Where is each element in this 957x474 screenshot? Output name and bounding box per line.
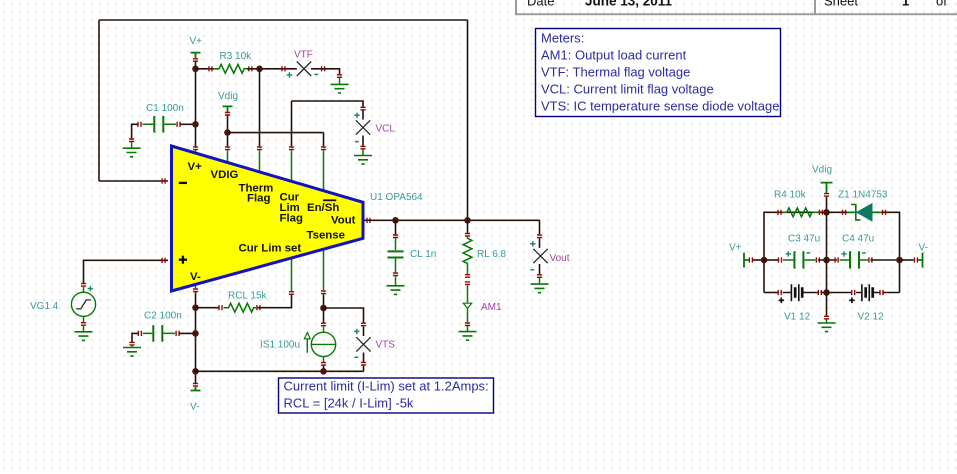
svg-text:VTF: VTF	[294, 50, 313, 61]
svg-text:VG1 4: VG1 4	[30, 301, 59, 312]
svg-text:RCL = [24k / I-Lim] -5k: RCL = [24k / I-Lim] -5k	[284, 396, 414, 411]
svg-text:C4 47u: C4 47u	[842, 234, 874, 245]
pin mark opamp VDIG pin	[225, 147, 230, 150]
svg-text:Vout: Vout	[550, 253, 570, 264]
junction C2 node	[192, 330, 199, 337]
node V+ rail top	[190, 36, 203, 61]
wire feedback top	[99, 19, 468, 21]
svg-text:V1 12: V1 12	[784, 312, 811, 323]
ground C1	[123, 142, 141, 157]
pin mark VG1 top	[81, 284, 86, 287]
wire center rail to ground	[826, 293, 828, 316]
ground right section	[818, 320, 836, 332]
svg-text:IS1 100u: IS1 100u	[260, 340, 300, 351]
pin mark C2 ground	[129, 342, 134, 345]
pin mark inverting input	[162, 178, 165, 183]
wire right rail to V- symbol	[900, 259, 914, 261]
wire Vdig to EnSh	[228, 132, 324, 134]
capacitor C2 100n	[138, 311, 181, 342]
wire EnSh column	[323, 133, 325, 147]
ground VG1	[75, 326, 93, 341]
pin mark opamp V+ pin	[193, 147, 198, 150]
pin mark noninverting input	[162, 258, 165, 263]
wire battery row left	[764, 292, 778, 294]
pin stub opamp V- pin	[195, 285, 197, 289]
svg-text:June 13, 2011: June 13, 2011	[585, 0, 673, 9]
junction feedback node	[464, 217, 471, 224]
pin stub opamp VDIG pin	[227, 150, 229, 163]
wire RCL to cur lim set pin	[258, 295, 292, 308]
wire Vout meter drop	[539, 220, 541, 235]
junction C1 node	[192, 121, 199, 128]
wire feedback right	[467, 20, 469, 220]
node Vdig rail	[218, 91, 238, 115]
pin mark V- rail	[193, 384, 198, 387]
svg-text:VCL: VCL	[376, 124, 396, 135]
wire thermal flag column	[259, 69, 261, 147]
wire C3 to center rail	[818, 259, 837, 261]
svg-text:VTF: Thermal flag voltage: VTF: Thermal flag voltage	[541, 65, 690, 80]
svg-text:Tsense: Tsense	[307, 230, 345, 242]
svg-text:Flag: Flag	[280, 213, 303, 225]
op-amp label Cur Lim Flag	[280, 192, 303, 225]
wire C2 left corner	[132, 333, 139, 342]
wire C4 to right rail	[871, 259, 900, 261]
ground Vout meter	[531, 278, 549, 293]
title block divider vertical left	[515, 0, 517, 14]
svg-text:V-: V-	[919, 243, 928, 254]
svg-text:En/Sh: En/Sh	[307, 202, 339, 214]
wire C2 to V- column	[179, 332, 196, 334]
wire left rail to C3	[764, 259, 778, 261]
voltmeter Vout	[530, 235, 570, 277]
svg-text:R3 10k: R3 10k	[220, 51, 253, 62]
svg-text:CL 1n: CL 1n	[410, 249, 436, 260]
svg-text:V+: V+	[729, 243, 742, 254]
svg-text:VDIG: VDIG	[211, 169, 239, 181]
wire CL column	[395, 220, 397, 234]
pin mark C1 ground	[129, 139, 134, 142]
junction center rail battery node	[823, 289, 830, 296]
junction RCL node	[192, 304, 199, 311]
pin stub opamp EnSh pin	[323, 150, 325, 191]
junction Vdig node	[224, 129, 231, 136]
pin mark opamp Vout pin	[367, 218, 370, 223]
ground C2	[123, 346, 141, 357]
pin mark VG1 bottom	[81, 323, 86, 326]
svg-text:Sheet: Sheet	[824, 0, 858, 9]
ground VCL	[354, 150, 372, 165]
svg-text:Current limit (I-Lim) set at 1: Current limit (I-Lim) set at 1.2Amps:	[284, 379, 489, 394]
svg-text:V-: V-	[190, 402, 199, 413]
op-amp inverting input minus sign	[179, 182, 187, 184]
svg-text:V+: V+	[190, 36, 203, 47]
svg-text:AM1: AM1	[481, 302, 502, 313]
node V- rail right section	[914, 243, 928, 268]
capacitor CL 1n	[388, 235, 437, 276]
op-amp label Therm Flag	[239, 183, 274, 205]
svg-text:U1 OPA564: U1 OPA564	[370, 192, 423, 203]
pin mark opamp Cur Lim Flag pin	[289, 147, 294, 150]
current source IS1 100u	[260, 326, 336, 362]
wire V- column	[195, 292, 197, 383]
title block divider vertical right	[814, 0, 816, 14]
pin mark right ground	[824, 316, 829, 319]
junction CL node	[392, 217, 399, 224]
svg-text:V+: V+	[188, 161, 203, 173]
junction right rail V- node	[896, 257, 903, 264]
capacitor C4 47u	[835, 234, 874, 269]
pin mark opamp Tsense pin	[321, 291, 326, 294]
wire IS1 to bottom rail	[323, 366, 325, 372]
svg-text:Meters:: Meters:	[541, 31, 584, 46]
current limit note box	[279, 378, 494, 413]
wire Vdig rail to zener node	[826, 197, 828, 213]
wire center rail	[826, 212, 828, 292]
pin mark IS1 bottom	[321, 363, 326, 366]
pin stub opamp Cur Lim set pin	[291, 258, 293, 291]
junction IS1 bottom node	[320, 368, 327, 375]
svg-text:VTS: VTS	[376, 340, 396, 351]
wire zener row right corner	[827, 212, 900, 292]
op-amp U1 OPA564 body	[172, 146, 364, 291]
junction V+ node	[192, 66, 199, 73]
resistor R4 10k	[774, 190, 822, 217]
ground AM1	[459, 326, 477, 340]
source VG1 4	[30, 286, 96, 322]
svg-text:Vdig: Vdig	[218, 91, 238, 102]
node Vdig rail right	[812, 165, 833, 197]
svg-text:VTS: IC temperature sense diod: VTS: IC temperature sense diode voltage	[541, 99, 779, 114]
capacitor C3 47u	[779, 234, 821, 269]
wire VTF to ground	[311, 69, 340, 75]
wire cur lim flag to VCL	[292, 101, 364, 107]
junction bottom rail node	[192, 368, 199, 375]
voltmeter VTF	[282, 50, 325, 78]
junction thermal flag node	[256, 66, 263, 73]
junction center rail mid node	[823, 257, 830, 264]
wire to inverting input	[99, 180, 168, 182]
wire cur lim flag column	[291, 101, 293, 147]
pin mark IS1 top	[321, 323, 326, 326]
pin mark opamp EnSh pin	[321, 147, 326, 150]
pin mark opamp V- pin	[193, 289, 198, 292]
wire R4 row left corner	[764, 212, 827, 292]
svg-text:Vdig: Vdig	[812, 165, 832, 176]
svg-text:C1 100n: C1 100n	[146, 103, 184, 114]
pin stub opamp Cur Lim Flag pin	[291, 150, 293, 181]
voltmeter VTS	[354, 323, 395, 365]
wire bottom rail	[196, 370, 364, 372]
wire VTS to bottom rail	[363, 365, 365, 371]
ground VTF	[331, 78, 349, 93]
wire center rail to V2	[827, 292, 852, 294]
svg-text:Date: Date	[527, 0, 554, 9]
junction zener node	[823, 209, 830, 216]
pin stub opamp Therm Flag pin	[259, 150, 261, 172]
wire V+ column	[195, 62, 197, 148]
wire V1 to center rail	[821, 292, 827, 294]
meters note box	[536, 29, 781, 117]
ammeter AM1	[463, 282, 502, 326]
wire feedback left	[98, 20, 100, 181]
pin stub opamp Tsense pin	[323, 249, 325, 290]
svg-text:Flag: Flag	[247, 193, 270, 205]
wire V+ to R3	[196, 68, 220, 70]
svg-text:C3 47u: C3 47u	[788, 234, 820, 245]
svg-text:Cur Lim set: Cur Lim set	[239, 243, 302, 255]
node V- rail bottom	[190, 387, 201, 413]
voltmeter VCL	[354, 107, 395, 149]
wire noninverting input	[84, 260, 169, 284]
wire Tsense to VTS	[324, 308, 364, 323]
pin mark opamp Cur Lim set pin	[289, 292, 294, 295]
zener diode Z1 1N4753	[838, 190, 888, 221]
svg-text:R4 10k: R4 10k	[774, 190, 807, 201]
resistor RL 6.8	[463, 234, 506, 278]
svg-text:of: of	[936, 0, 947, 9]
wire R3 to VTF	[247, 68, 297, 70]
wire Vout row	[365, 219, 540, 221]
svg-text:Z1 1N4753: Z1 1N4753	[838, 190, 888, 201]
wire V2 to right rail	[882, 292, 899, 294]
title block bottom border	[515, 13, 957, 15]
battery V2 12	[849, 284, 884, 322]
wire RL column	[467, 220, 469, 233]
junction left rail V+ node	[761, 257, 768, 264]
svg-text:RCL 15k: RCL 15k	[228, 291, 268, 302]
battery V1 12	[778, 284, 821, 322]
junction Tsense node	[320, 305, 327, 312]
wire V+ to left rail	[753, 259, 764, 261]
svg-text:1: 1	[902, 0, 909, 9]
svg-text:VCL: Current limit flag voltag: VCL: Current limit flag voltage	[541, 82, 714, 97]
svg-text:V2 12: V2 12	[858, 312, 885, 323]
wire RCL row left	[196, 307, 220, 309]
pin mark VTF ground	[337, 75, 342, 78]
svg-text:C2 100n: C2 100n	[144, 311, 182, 322]
ground CL	[387, 276, 405, 294]
svg-text:V-: V-	[190, 271, 201, 283]
node V+ rail right section	[729, 243, 752, 268]
wire Vdig column	[227, 116, 229, 148]
op-amp label En/Sh with overline	[307, 200, 339, 214]
svg-text:Vout: Vout	[331, 215, 356, 227]
wire C1 to V+ column	[180, 123, 196, 125]
wire C1 left corner	[132, 124, 139, 138]
pin stub opamp V+ pin	[195, 150, 197, 153]
capacitor C1 100n	[138, 103, 184, 133]
pin mark opamp Therm Flag pin	[257, 147, 262, 150]
wire Tsense column	[323, 294, 325, 322]
resistor R3 10k	[209, 51, 252, 73]
resistor RCL 15k	[219, 291, 268, 313]
op-amp noninverting input plus sign	[179, 256, 187, 264]
svg-text:AM1: Output load current: AM1: Output load current	[541, 48, 687, 63]
svg-text:RL 6.8: RL 6.8	[477, 249, 507, 260]
